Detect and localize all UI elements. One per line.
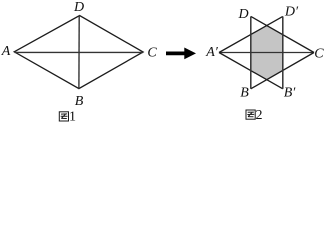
svg-text:C′: C′ — [314, 47, 325, 62]
svg-text:D: D — [73, 0, 84, 15]
svg-text:B′: B′ — [284, 86, 297, 101]
svg-text:A: A — [1, 44, 11, 59]
svg-text:A′: A′ — [205, 45, 219, 60]
svg-text:D: D — [237, 7, 248, 22]
svg-text:D′: D′ — [284, 5, 299, 20]
svg-text:C: C — [147, 46, 157, 61]
svg-text:B: B — [75, 94, 84, 109]
svg-text:1: 1 — [69, 110, 76, 124]
svg-text:2: 2 — [256, 108, 263, 123]
svg-text:B: B — [240, 86, 249, 101]
